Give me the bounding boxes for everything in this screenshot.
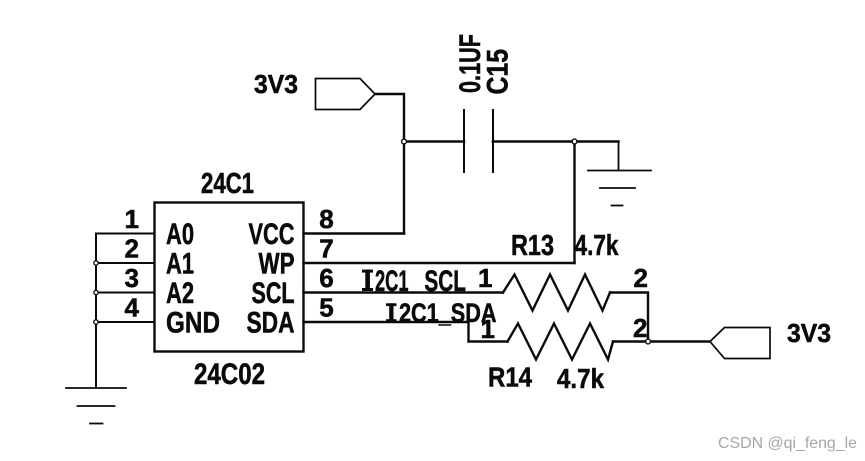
svg-text:2: 2	[125, 234, 139, 264]
svg-text:2: 2	[633, 313, 647, 343]
svg-text:2C1: 2C1	[375, 265, 409, 298]
svg-text:24C1: 24C1	[201, 168, 254, 200]
svg-text:WP: WP	[259, 248, 295, 281]
svg-text:SCL: SCL	[252, 277, 295, 310]
svg-text:CSDN @qi_feng_le: CSDN @qi_feng_le	[718, 435, 857, 452]
svg-text:1: 1	[481, 314, 495, 344]
svg-text:C15: C15	[482, 49, 515, 95]
svg-text:2: 2	[634, 263, 648, 293]
svg-text:3: 3	[125, 263, 139, 293]
svg-text:1: 1	[125, 204, 139, 234]
svg-text:R14: R14	[488, 362, 532, 393]
svg-text:R13: R13	[511, 230, 554, 262]
svg-text:3V3: 3V3	[787, 318, 831, 348]
svg-text:1: 1	[478, 263, 492, 293]
svg-text:4.7k: 4.7k	[575, 230, 620, 262]
svg-text:VCC: VCC	[249, 218, 295, 251]
svg-text:7: 7	[319, 234, 333, 264]
svg-text:SDA: SDA	[247, 307, 295, 340]
svg-text:24C02: 24C02	[194, 358, 265, 391]
svg-text:A1: A1	[166, 248, 194, 281]
svg-text:A2: A2	[166, 277, 194, 310]
svg-text:GND: GND	[166, 307, 220, 340]
svg-text:5: 5	[319, 293, 333, 323]
svg-text:A0: A0	[166, 218, 194, 251]
svg-text:6: 6	[319, 263, 333, 293]
svg-text:3V3: 3V3	[254, 69, 298, 99]
svg-text:SCL: SCL	[424, 265, 466, 298]
svg-text:4: 4	[125, 293, 140, 323]
svg-text:8: 8	[319, 204, 333, 234]
svg-text:4.7k: 4.7k	[557, 363, 604, 394]
